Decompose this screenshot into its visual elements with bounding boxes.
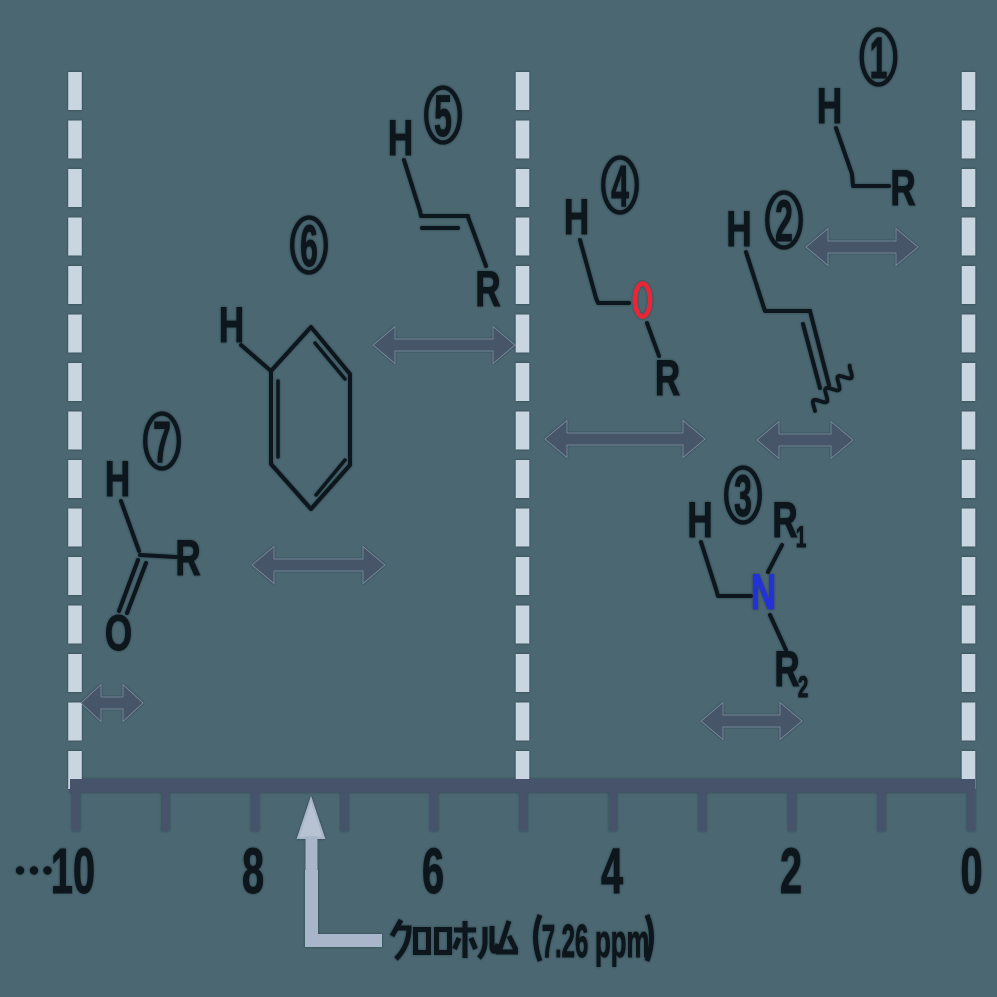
- label paren close: [647, 915, 652, 961]
- svg-text:R: R: [774, 642, 799, 698]
- label 7.26: [542, 916, 589, 967]
- circled number 3: [726, 464, 760, 528]
- svg-text:7.26: 7.26: [542, 916, 589, 967]
- structure 7 C=O double bond: [119, 560, 146, 613]
- structure 5 C=C second line: [422, 226, 458, 230]
- svg-text:H: H: [687, 493, 712, 549]
- axis numeral 10: [51, 837, 95, 908]
- structure 5 bond C-R: [468, 217, 486, 266]
- structure 3 bond H-C-N: [701, 542, 751, 596]
- label ppm: [595, 915, 649, 967]
- structure 4 label R: [655, 351, 680, 407]
- range arrow 1 (CH3): [806, 229, 918, 266]
- svg-text:2: 2: [780, 837, 802, 908]
- svg-text:1: 1: [870, 26, 888, 90]
- chloroform pointer arrow (up): [298, 799, 324, 938]
- axis numeral 8: [242, 837, 264, 908]
- axis tick 5 ppm: [520, 791, 528, 831]
- svg-text:0: 0: [960, 837, 982, 908]
- svg-text:4: 4: [601, 837, 623, 908]
- structure 7 bond C-R: [140, 555, 176, 557]
- axis tick 3 ppm: [699, 791, 707, 831]
- svg-text:1: 1: [796, 521, 806, 555]
- structure 7 label H: [105, 452, 130, 508]
- structure 4 label O (red): [635, 284, 650, 317]
- structure 5 bond H-C: [404, 160, 468, 216]
- structure 1 bond H-C: [836, 128, 889, 186]
- structure 6 label H: [219, 298, 244, 354]
- label katakana ru: [479, 926, 498, 958]
- svg-text:R: R: [475, 262, 500, 318]
- range arrow 6 (aromatic): [252, 547, 385, 584]
- axis tick 9 ppm: [162, 791, 170, 831]
- structure 4 bond H-C-O: [580, 240, 629, 303]
- axis tick 6 ppm: [430, 791, 438, 831]
- svg-text:6: 6: [422, 837, 444, 908]
- label katakana ro 1: [416, 930, 429, 953]
- axis numeral 0: [960, 837, 982, 908]
- structure 1 label R: [890, 161, 915, 217]
- structure 7 label R: [175, 531, 200, 587]
- svg-text:N: N: [751, 565, 776, 621]
- axis tick 7 ppm: [341, 791, 349, 831]
- svg-text:ppm: ppm: [595, 915, 649, 967]
- axis numeral 2: [780, 837, 802, 908]
- structure 6 bond H-ring: [241, 345, 271, 371]
- range arrow 3 (H-C-N): [701, 703, 802, 740]
- structure 3 bond N-R2: [770, 615, 786, 650]
- structure 2 C=C double bond: [803, 311, 829, 388]
- axis tick 2 ppm: [788, 791, 796, 831]
- structure 3 bond N-R1: [768, 545, 782, 572]
- structure 5 label H: [388, 111, 413, 167]
- structure 2 squiggle bond: [813, 366, 852, 411]
- circled number 4: [603, 154, 637, 218]
- structure 2 bond H-C-C: [746, 252, 810, 311]
- structure 1 label H: [817, 79, 842, 135]
- range arrow 5 (vinylic): [373, 327, 515, 364]
- svg-text:2: 2: [775, 189, 793, 253]
- structure 6 benzene ring: [271, 327, 350, 509]
- svg-text:O: O: [105, 606, 132, 662]
- range arrow 2 (allylic): [757, 422, 853, 459]
- axis numeral 4: [601, 837, 623, 908]
- structure 7 bond H-C: [121, 501, 139, 551]
- structure 3 label N (blue): [751, 565, 776, 621]
- svg-text:5: 5: [434, 84, 452, 148]
- svg-text:3: 3: [734, 464, 752, 528]
- dashed gridline 0 ppm: [962, 72, 976, 790]
- svg-text:10: 10: [51, 837, 95, 908]
- range arrow 7 (aldehyde): [81, 685, 143, 722]
- label katakana ku: [392, 920, 409, 959]
- structure 5 label R: [475, 262, 500, 318]
- svg-text:H: H: [105, 452, 130, 508]
- svg-text:H: H: [388, 111, 413, 167]
- circled number 5: [426, 84, 460, 148]
- axis tick 10 ppm: [72, 791, 80, 831]
- label paren open: [536, 915, 541, 961]
- structure 2 label H: [726, 202, 751, 258]
- axis bar (ppm scale): [70, 779, 975, 793]
- label katakana ro 2: [437, 930, 450, 953]
- range arrow 4 (H-C-O): [545, 421, 705, 458]
- structure 7 label O: [105, 606, 132, 662]
- svg-text:R: R: [655, 351, 680, 407]
- axis tick 1 ppm: [878, 791, 886, 831]
- circled number 6: [292, 214, 326, 278]
- chloroform pointer L-line: [312, 870, 383, 941]
- svg-text:R: R: [772, 493, 797, 549]
- structure 3 label R1: [772, 493, 806, 554]
- svg-text:4: 4: [611, 154, 629, 218]
- structure 4 bond O-R: [647, 323, 659, 356]
- axis tick 8 ppm: [251, 791, 259, 831]
- svg-text:R: R: [890, 161, 915, 217]
- svg-text:R: R: [175, 531, 200, 587]
- axis label ellipsis: [16, 866, 52, 874]
- svg-text:H: H: [817, 79, 842, 135]
- structure 3 label H: [687, 493, 712, 549]
- structure 3 label R2: [774, 642, 808, 704]
- svg-text:7: 7: [153, 410, 171, 474]
- dashed gridline 10 ppm: [68, 72, 82, 790]
- svg-text:H: H: [564, 190, 589, 246]
- svg-text:H: H: [726, 202, 751, 258]
- circled number 1: [862, 26, 896, 90]
- axis numeral 6: [422, 837, 444, 908]
- structure 4 label H: [564, 190, 589, 246]
- axis tick 0 ppm: [967, 791, 975, 831]
- svg-text:2: 2: [798, 671, 808, 705]
- svg-text:8: 8: [242, 837, 264, 908]
- label katakana ho: [454, 921, 476, 958]
- circled number 2: [767, 189, 801, 253]
- label katakana mu: [499, 921, 518, 952]
- dashed gridline 5 ppm: [516, 72, 530, 790]
- circled number 7: [145, 410, 179, 474]
- svg-text:6: 6: [300, 214, 318, 278]
- axis tick 4 ppm: [609, 791, 617, 831]
